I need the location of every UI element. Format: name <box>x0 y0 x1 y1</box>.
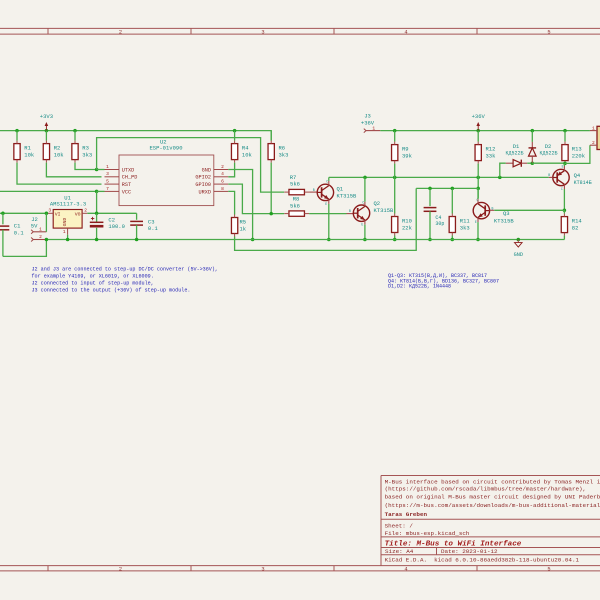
svg-text:C4: C4 <box>435 215 441 221</box>
wire UTXD node to U2 pin1 <box>97 169 105 171</box>
wire C1 bottom loop to ground <box>3 240 47 257</box>
U2 pin2 GND <box>214 169 229 171</box>
connector J2 pin2 <box>31 238 33 242</box>
svg-text:GND: GND <box>202 167 211 173</box>
svg-text:C: C <box>362 200 364 204</box>
transistor Q4 KT814 PNP <box>553 169 569 185</box>
svg-text:2: 2 <box>84 208 87 214</box>
svg-text:(https://github.com/rscada/lib: (https://github.com/rscada/libmbus/tree/… <box>385 485 586 492</box>
connector J3 pin1 <box>364 129 366 133</box>
junction J2 pin2 at ground <box>45 238 49 242</box>
junction +36V at D2 <box>531 129 535 133</box>
junction R12/Q3 collector at row188 <box>476 187 480 191</box>
resistor R3 <box>74 131 76 141</box>
svg-text:R6: R6 <box>279 144 286 151</box>
U2 pin6 GPIO0 <box>214 183 229 185</box>
svg-text:based on original M-Bus master: based on original M-Bus master circuit d… <box>385 494 600 501</box>
wire R9 bottom to node row <box>394 164 396 178</box>
wire R12 bottom through node rows <box>477 164 479 199</box>
junction output rail at C2 <box>95 212 99 216</box>
resistor R5 <box>231 218 237 234</box>
wire U1 GND to ground rail <box>67 235 69 240</box>
svg-text:5k6: 5k6 <box>290 181 300 188</box>
ic U2 ESP-01 box <box>119 155 214 206</box>
resistor R12 <box>477 131 479 142</box>
wire R10 bottom to ground <box>394 236 396 240</box>
wire D1 cathode to D2 anode <box>527 162 532 164</box>
wire R14 bottom to ground rail <box>563 236 565 240</box>
svg-text:0.1: 0.1 <box>14 229 25 236</box>
junction row188 at C4 <box>428 187 432 191</box>
wire UTXD net up-over to R7 <box>97 138 285 193</box>
svg-text:E: E <box>475 220 477 224</box>
svg-text:Sheet: /: Sheet: / <box>385 522 414 529</box>
wire 5V rail y213.3 <box>0 212 48 214</box>
wire M-Bus pin2 route <box>565 145 590 163</box>
wire VCC net from left edge <box>0 190 97 192</box>
resistor R4 <box>231 144 237 160</box>
junction +36V at R12 <box>476 129 480 133</box>
U2 pin1 UTXD <box>105 169 120 171</box>
J1 pin2 <box>590 144 597 146</box>
diode D2 KD522B vertical <box>531 131 533 142</box>
svg-text:J3: J3 <box>364 113 371 120</box>
svg-text:220k: 220k <box>572 152 586 159</box>
svg-text:2: 2 <box>39 234 42 240</box>
svg-text:4: 4 <box>221 171 224 177</box>
sheet border bottom ticks <box>47 566 49 571</box>
svg-text:КД522Б: КД522Б <box>505 150 523 156</box>
svg-text:VO: VO <box>75 212 81 218</box>
ground symbol GND <box>517 238 521 242</box>
svg-text:1: 1 <box>592 125 595 131</box>
junction 5V rail at J2 pin1 <box>45 212 49 216</box>
junction +36V at R9 <box>393 129 397 133</box>
svg-text:3k3: 3k3 <box>279 151 289 158</box>
wire VCC node down to U1 VO <box>96 191 98 213</box>
svg-text:C: C <box>326 180 328 184</box>
svg-text:7: 7 <box>106 186 109 192</box>
svg-text:File: mbus-esp.kicad_sch: File: mbus-esp.kicad_sch <box>385 530 470 537</box>
svg-text:C: C <box>561 187 563 191</box>
svg-text:GND: GND <box>514 252 523 258</box>
junction node row at Q2 <box>363 176 367 180</box>
wire collector node row y177 <box>329 176 549 178</box>
svg-text:R14: R14 <box>572 217 583 224</box>
svg-text:Q3: Q3 <box>503 210 510 217</box>
svg-text:R5: R5 <box>240 218 247 225</box>
wire R2 bottom to U2 CH_PD pin3 <box>46 163 101 177</box>
wire Q3 base to Q4 collector node <box>490 209 495 211</box>
wire Q2 collector to node row <box>364 177 366 201</box>
wire R6 bottom to GPIO0 net <box>270 163 272 214</box>
junction UTXD node <box>95 168 99 172</box>
wire +36V rail <box>380 130 590 132</box>
svg-text:1: 1 <box>106 164 109 170</box>
svg-text:39k: 39k <box>402 152 413 159</box>
wire Q3 emitter to ground <box>477 222 479 239</box>
resistor R14 <box>563 210 565 213</box>
svg-text:10k: 10k <box>54 151 65 158</box>
svg-text:Taras Greben: Taras Greben <box>385 511 428 518</box>
svg-text:4: 4 <box>404 30 407 36</box>
svg-text:+36V: +36V <box>472 113 486 120</box>
svg-text:R4: R4 <box>242 144 249 151</box>
U2 pin8 URXD <box>214 190 229 192</box>
svg-text:UTXD: UTXD <box>122 167 134 173</box>
junction +3V3 rail at R2 <box>45 129 49 133</box>
svg-text:+3V3: +3V3 <box>40 113 53 120</box>
svg-text:J2 connected to input of step-: J2 connected to input of step-up module, <box>32 280 154 286</box>
wire U2 GPIO0 pin6 to R8 <box>228 184 284 214</box>
resistor R6 <box>270 131 272 141</box>
svg-text:1: 1 <box>63 229 66 235</box>
junction +3V3 rail at R3 <box>73 129 77 133</box>
resistor R7 <box>289 189 305 194</box>
wire VCC node to U2 pin7 <box>97 190 105 192</box>
U1 pin3 VI <box>48 212 53 214</box>
svg-text:Date: 2023-01-12: Date: 2023-01-12 <box>441 548 498 555</box>
junction R11 at ground <box>451 238 455 242</box>
svg-text:2: 2 <box>119 30 122 36</box>
svg-text:Q4: Q4 <box>574 172 581 179</box>
svg-text:R2: R2 <box>54 144 61 151</box>
wire Q2 emitter to ground rail <box>364 225 366 240</box>
svg-text:AMS1117-3.3: AMS1117-3.3 <box>50 201 86 208</box>
capacitor C1 <box>2 213 4 224</box>
svg-text:D1: D1 <box>513 143 520 150</box>
svg-text:GPIO0: GPIO0 <box>195 182 211 188</box>
svg-text:D1,D2: КД522Б, 1N4448: D1,D2: КД522Б, 1N4448 <box>388 283 451 289</box>
resistor R2 <box>45 131 47 141</box>
svg-text:URXD: URXD <box>199 189 211 195</box>
junction +3V3 rail at R1 <box>15 129 19 133</box>
junction +36V at R13 <box>563 129 567 133</box>
wire Q1 emitter to ground rail <box>328 204 330 240</box>
sheet border bottom outer line <box>0 570 600 572</box>
junction Q1 emitter at ground <box>327 238 331 242</box>
svg-text:1: 1 <box>39 226 42 232</box>
svg-text:100.0: 100.0 <box>108 223 125 230</box>
wire D2 node to R13 node <box>532 162 565 164</box>
wire ground rail y239.5 <box>46 239 564 241</box>
svg-text:R10: R10 <box>402 217 412 224</box>
wire Q1 collector to node row <box>328 177 330 181</box>
svg-text:82: 82 <box>572 224 579 231</box>
wire U2 URXD pin8 to R5 <box>228 191 234 214</box>
svg-text:0.1: 0.1 <box>148 225 159 232</box>
connector J1 body <box>597 126 600 149</box>
sheet border top outer line <box>0 27 600 29</box>
svg-text:KT315B: KT315B <box>494 217 515 224</box>
svg-text:+36V: +36V <box>361 120 375 127</box>
capacitor C4 <box>429 188 431 206</box>
svg-text:Q2: Q2 <box>374 200 381 207</box>
junction R6/GPIO0 net <box>269 212 273 216</box>
svg-text:R13: R13 <box>572 145 582 152</box>
wire R1 bottom to U2 RST pin5 <box>17 163 102 185</box>
svg-text:ESP-01v090: ESP-01v090 <box>149 145 182 152</box>
wire U2 GND pin2 to ground rail <box>228 170 252 240</box>
svg-text:Q1: Q1 <box>337 185 344 192</box>
J1 pin1 <box>590 130 597 132</box>
wire Q4 collector down <box>563 189 565 210</box>
wire R13 bottom <box>564 162 566 164</box>
power symbol +36V <box>477 126 479 131</box>
sheet border top ticks <box>47 28 49 34</box>
junction C3 bottom at ground <box>135 238 139 242</box>
resistor R11 <box>451 188 453 213</box>
svg-text:Size: A4: Size: A4 <box>385 548 414 555</box>
wire Q3 collector up to row188 <box>477 188 479 199</box>
U2 pin7 VCC <box>105 190 120 192</box>
svg-text:R1: R1 <box>24 144 31 151</box>
wire J2 pin1 up to 5V rail <box>45 213 47 232</box>
wire RX row y188 <box>416 187 478 189</box>
resistor R8 <box>289 211 305 216</box>
transistor Q2 KT315B <box>353 205 369 221</box>
svg-text:1k: 1k <box>240 225 247 232</box>
svg-text:R9: R9 <box>402 145 409 152</box>
junction node row at D1 <box>498 176 502 180</box>
svg-text:2: 2 <box>221 164 224 170</box>
svg-text:J3 connected to the output (+3: J3 connected to the output (+36V) of ste… <box>32 287 191 293</box>
svg-text:B: B <box>349 209 351 213</box>
wire 3V3 output rail <box>87 212 136 214</box>
svg-text:KiCad E.D.A. kicad 6.0.10-86a: KiCad E.D.A. kicad 6.0.10-86aedd382b-118… <box>385 557 580 564</box>
wire R5 bottom to RX sense node <box>235 188 417 250</box>
svg-text:3k3: 3k3 <box>82 151 92 158</box>
diode D1 KD522B <box>506 162 513 164</box>
svg-text:VI: VI <box>55 212 61 218</box>
U2 pin5 RST <box>105 183 120 185</box>
resistor R9 <box>394 131 396 142</box>
junction U1 GND at ground <box>66 238 70 242</box>
svg-text:E: E <box>562 164 564 168</box>
resistor R10 <box>394 177 396 213</box>
U1 pin1 GND <box>67 228 69 235</box>
svg-text:R12: R12 <box>486 145 496 152</box>
svg-text:10k: 10k <box>242 151 253 158</box>
svg-text:5k6: 5k6 <box>290 202 300 209</box>
wire Q4 emitter to R13 node <box>563 163 565 166</box>
wire R8 to Q2 base <box>309 213 346 215</box>
svg-text:3: 3 <box>106 171 109 177</box>
svg-text:3: 3 <box>48 208 51 214</box>
svg-text:4: 4 <box>404 566 407 572</box>
junction +3V3 rail at R4 <box>233 129 237 133</box>
svg-text:KT315B: KT315B <box>337 192 358 199</box>
svg-text:E: E <box>361 223 363 227</box>
junction 5V rail at C1 <box>1 212 5 216</box>
junction row188 at R11 <box>451 187 455 191</box>
junction C4 bottom at ground <box>428 238 432 242</box>
regulator U1 AMS1117-3.3 body <box>53 210 82 229</box>
svg-text:KT814Б: KT814Б <box>574 180 592 186</box>
resistor R13 <box>564 131 566 142</box>
sheet border top inner line <box>0 33 600 35</box>
transistor Q3 KT315B mirrored <box>473 202 489 218</box>
junction Q2 emitter at ground <box>363 238 367 242</box>
svg-text:2: 2 <box>592 140 595 146</box>
wire R7 to Q1 base <box>309 191 317 193</box>
title block frame <box>380 476 382 566</box>
capacitor C2 polarized <box>96 213 98 222</box>
junction R13/Q4 emitter node <box>563 162 567 166</box>
svg-text:VCC: VCC <box>122 189 131 195</box>
capacitor C3 <box>136 213 138 220</box>
wire D1 anode from node row <box>500 163 506 177</box>
svg-text:30p: 30p <box>435 221 444 227</box>
svg-text:D2: D2 <box>545 143 552 150</box>
transistor Q1 KT315B <box>317 184 333 200</box>
svg-text:5: 5 <box>547 566 550 572</box>
wire +3V3 rail y131 <box>0 131 271 141</box>
svg-text:8: 8 <box>221 186 224 192</box>
U2 pin3 CH_PD <box>105 176 120 178</box>
svg-text:B: B <box>313 188 315 192</box>
svg-text:6: 6 <box>221 179 224 185</box>
svg-text:RST: RST <box>122 182 131 188</box>
svg-text:Title: M-Bus to WiFi Interface: Title: M-Bus to WiFi Interface <box>385 540 522 548</box>
U2 pin4 GPIO2 <box>214 176 229 178</box>
sheet border bottom inner line <box>0 565 600 567</box>
svg-text:33k: 33k <box>486 152 497 159</box>
junction node row at R9/R10 <box>393 176 397 180</box>
wire Q4 base from node row <box>549 176 553 178</box>
wire R3 bottom to UTXD node <box>75 163 97 170</box>
junction R10 at ground <box>393 238 397 242</box>
junction U2 GND at ground rail <box>251 238 255 242</box>
svg-text:E: E <box>325 202 327 206</box>
svg-text:5V: 5V <box>31 222 38 229</box>
svg-text:22k: 22k <box>402 224 413 231</box>
svg-text:KT315B: KT315B <box>374 207 395 214</box>
svg-text:CH_PD: CH_PD <box>122 175 138 181</box>
svg-text:GPIO2: GPIO2 <box>195 175 211 181</box>
junction C2 bottom at ground <box>95 238 99 242</box>
svg-text:for example Y4169, or XL6019,: for example Y4169, or XL6019, or XL6009. <box>32 273 154 279</box>
svg-text:10k: 10k <box>24 151 35 158</box>
svg-text:J2 and J3 are connected to ste: J2 and J3 are connected to step-up DC/DC… <box>32 266 218 272</box>
svg-text:R3: R3 <box>82 144 89 151</box>
svg-text:5: 5 <box>547 30 550 36</box>
svg-text:3: 3 <box>261 30 264 36</box>
svg-text:2: 2 <box>119 566 122 572</box>
junction D1/D2 node <box>531 161 535 165</box>
svg-text:R11: R11 <box>460 217 471 224</box>
U1 pin2 VO <box>82 212 87 214</box>
svg-text:5: 5 <box>106 179 109 185</box>
junction Q3 emitter at ground <box>476 238 480 242</box>
power symbol +3V3 <box>45 126 47 131</box>
junction node row at R12 <box>476 176 480 180</box>
junction Q4 collector / R14 / Q3 base <box>563 209 567 213</box>
wire R11 bottom to ground <box>451 236 453 240</box>
connector J2 pin1 <box>31 230 33 234</box>
svg-text:КД522Б: КД522Б <box>539 150 557 156</box>
svg-text:3: 3 <box>261 566 264 572</box>
resistor R1 <box>16 131 18 141</box>
svg-text:GND: GND <box>62 218 68 227</box>
junction VCC node <box>95 190 99 194</box>
wire U2 GPIO2 pin4 to R4 <box>228 163 234 177</box>
svg-text:(https://m-bus.com/assets/down: (https://m-bus.com/assets/downloads/m-bu… <box>385 502 600 509</box>
svg-text:B: B <box>548 173 550 177</box>
svg-text:3k3: 3k3 <box>460 224 470 231</box>
